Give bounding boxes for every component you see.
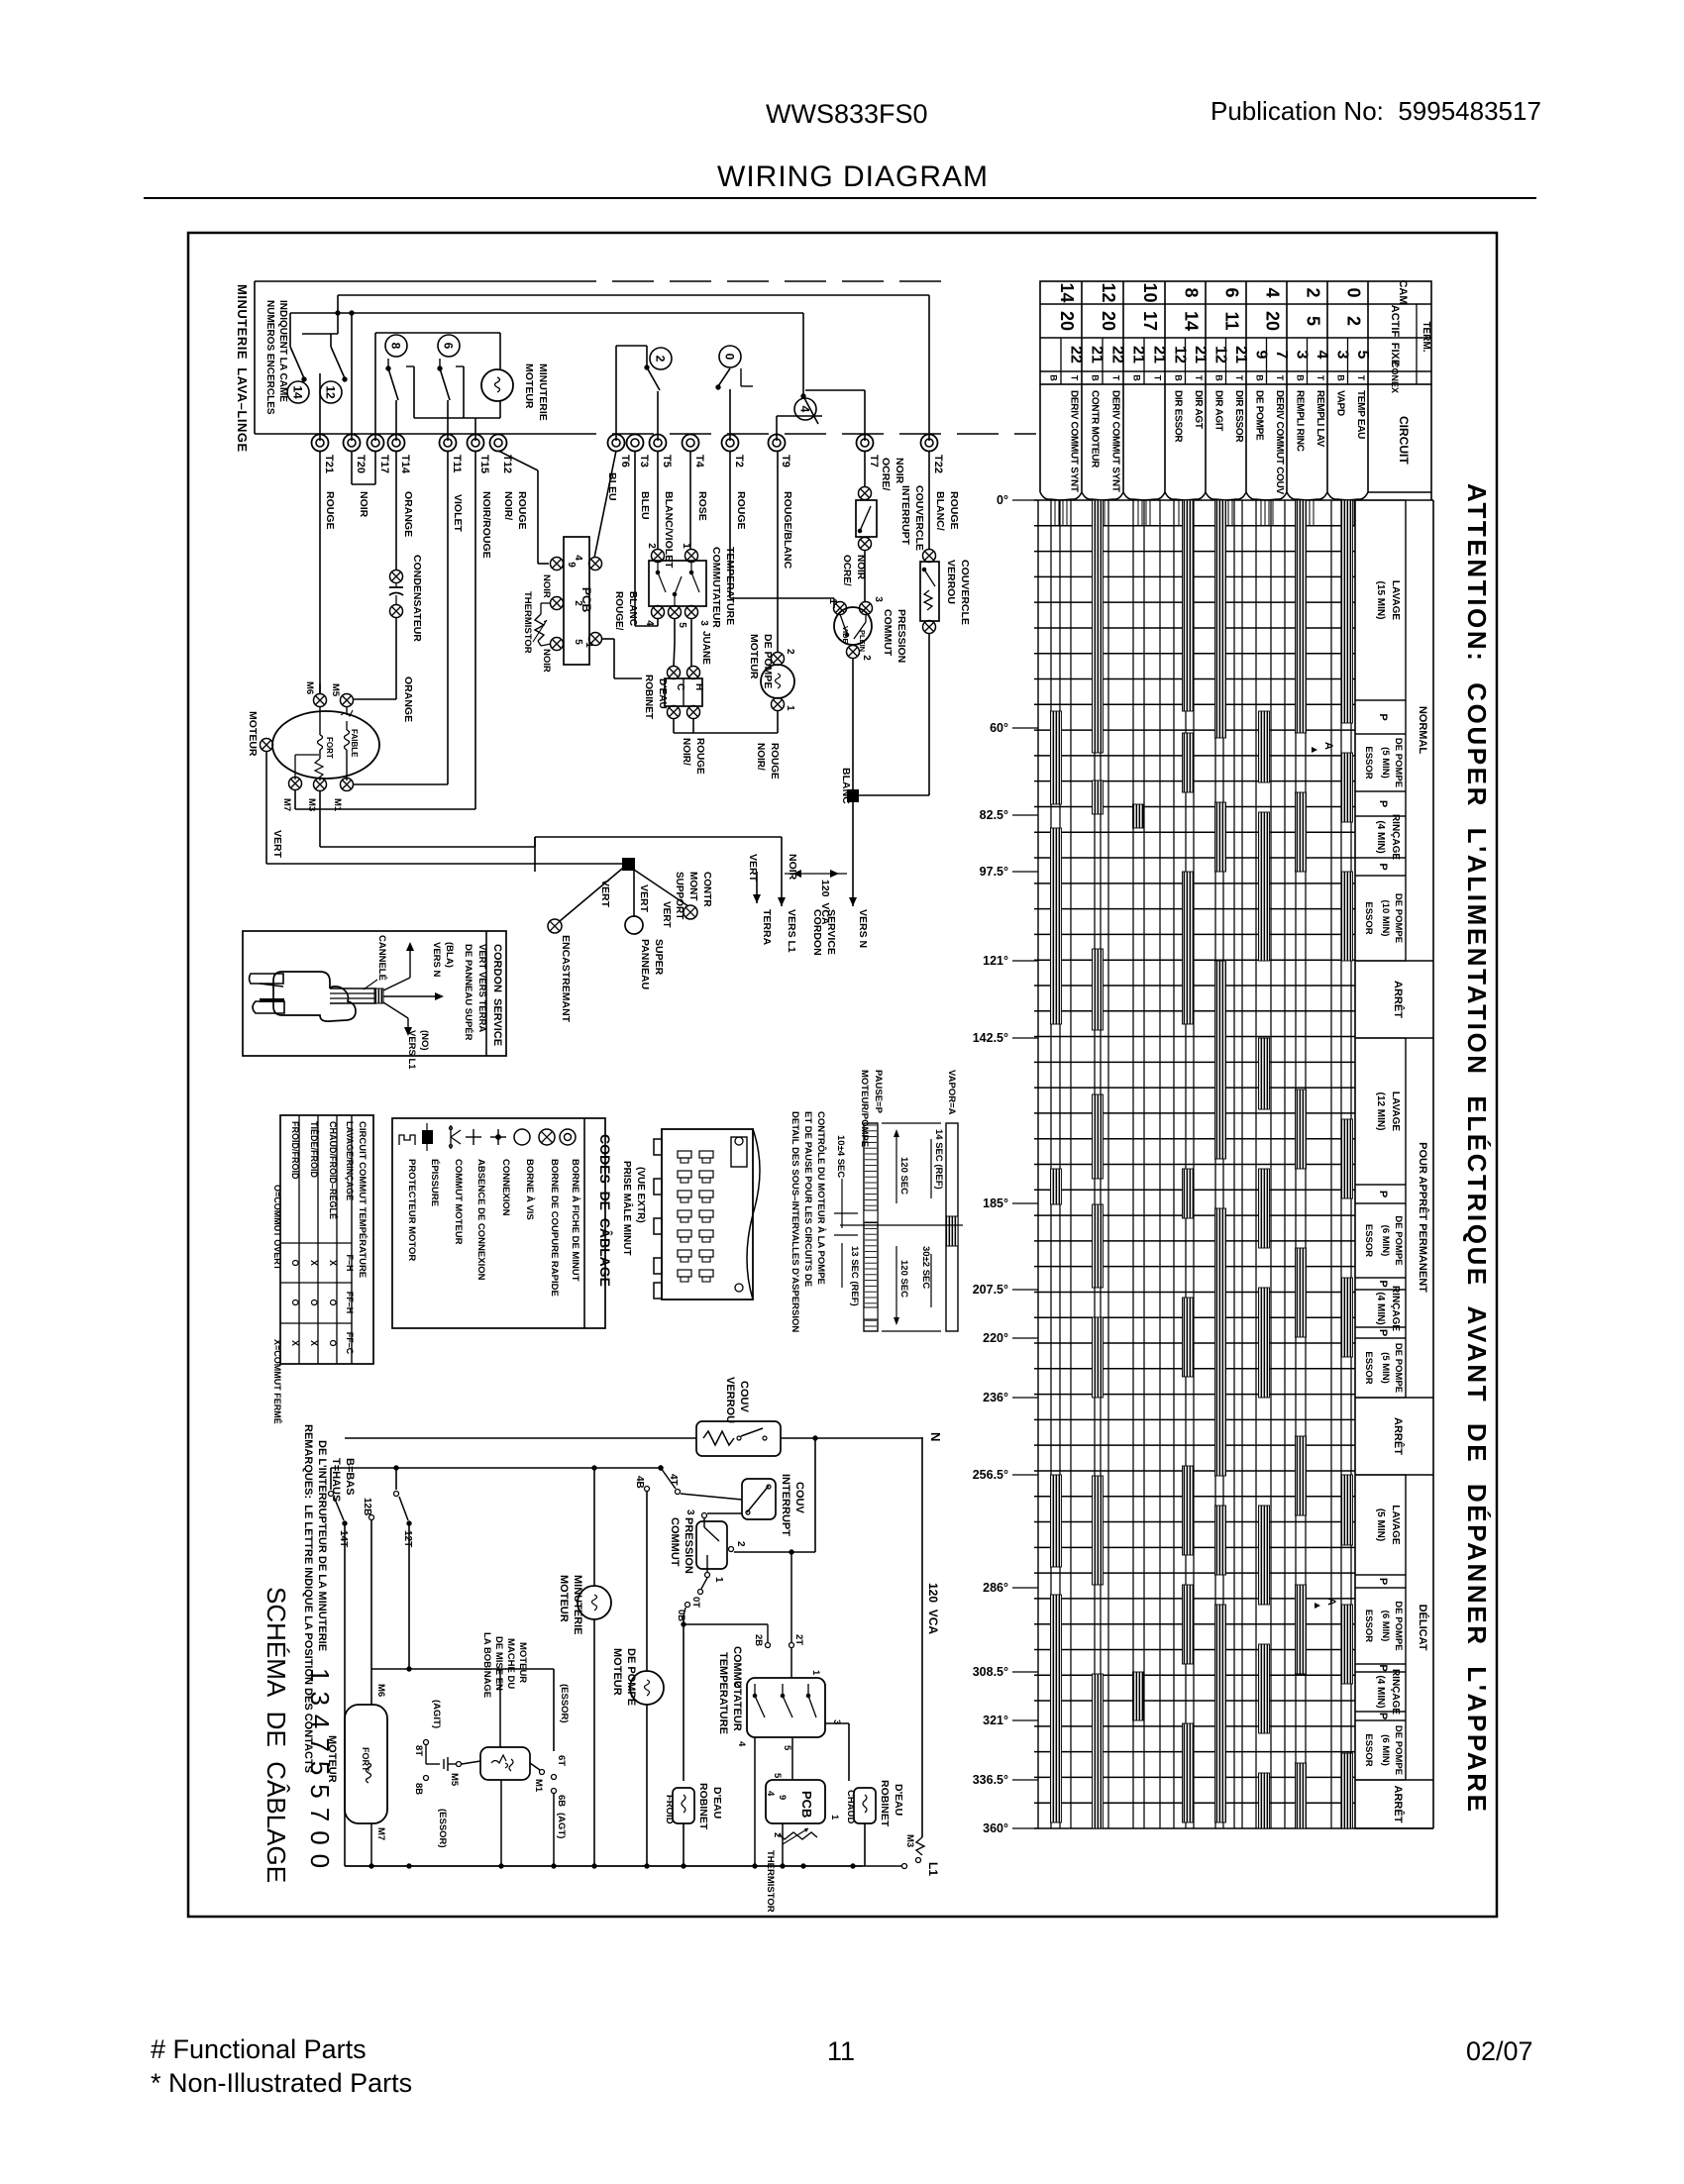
svg-text:MINUTERIE: MINUTERIE [572,1575,583,1635]
svg-text:ACTIF: ACTIF [1389,305,1401,338]
svg-text:(10 MIN): (10 MIN) [1380,900,1391,937]
svg-text:14: 14 [1057,282,1077,302]
svg-text:12B: 12B [362,1498,372,1515]
terminal T9 [769,435,786,452]
svg-text:BORNE À VIS: BORNE À VIS [524,1159,535,1220]
svg-text:CORDON: CORDON [811,909,823,956]
svg-text:2: 2 [654,356,668,363]
svg-text:236°: 236° [983,1391,1008,1404]
cycle phase cells [1355,499,1406,501]
svg-text:LAVAGE/RINÇAGE: LAVAGE/RINÇAGE [345,1121,355,1200]
svg-text:SCHÉMA DE CÂBLAGE: SCHÉMA DE CÂBLAGE [262,1587,291,1883]
svg-text:MOTEUR: MOTEUR [517,1642,528,1683]
temp sw connections [790,1648,792,1678]
junction splice [622,858,635,871]
terminal T7 [857,435,874,452]
svg-text:3: 3 [698,620,709,626]
pump motor [761,665,794,698]
svg-text:B: B [1173,374,1183,381]
svg-text:MOTEUR: MOTEUR [748,634,760,679]
svg-text:336.5°: 336.5° [973,1773,1008,1787]
svg-text:3: 3 [873,596,884,602]
svg-text:21: 21 [1232,346,1249,364]
svg-text:OCRE/: OCRE/ [880,458,892,490]
svg-text:B: B [1254,374,1264,381]
svg-text:ESSOR: ESSOR [1363,1224,1374,1257]
connector drop bundles under scallops [1054,500,1056,526]
svg-text:DERIV COMMUT COUV: DERIV COMMUT COUV [1274,390,1285,495]
svg-text:(6 MIN): (6 MIN) [1380,1734,1391,1766]
pcb pins [551,558,564,571]
svg-text:17: 17 [1140,311,1160,331]
svg-text:DIR ESSOR: DIR ESSOR [1172,390,1183,443]
svg-text:MONT: MONT [687,872,698,900]
legend sym coupure rapide [539,1129,555,1145]
svg-text:T22: T22 [932,455,944,473]
svg-text:20: 20 [1099,311,1118,331]
wire bus y337 [302,333,338,335]
svg-text:T6: T6 [619,455,631,468]
svg-text:ARRÊT: ARRÊT [1392,1786,1405,1823]
svg-text:ABSENCE DE CONNEXION: ABSENCE DE CONNEXION [475,1159,486,1281]
minuterie timer box [254,281,256,434]
svg-text:MOTEUR: MOTEUR [247,711,259,757]
motor (main) [272,711,379,779]
svg-text:T7: T7 [868,455,880,468]
svg-text:P: P [1377,1578,1389,1585]
svg-text:CORDON SERVICE: CORDON SERVICE [491,944,503,1046]
M1 contact [530,1763,540,1770]
svg-text:ROUGE/BLANC: ROUGE/BLANC [782,491,793,570]
svg-text:B: B [1049,374,1059,381]
svg-text:CIRCUIT: CIRCUIT [1397,416,1411,465]
svg-text:NOIR/ROUGE: NOIR/ROUGE [480,491,492,559]
svg-text:5: 5 [573,639,583,645]
svg-text:121°: 121° [983,954,1008,968]
T21 riser [319,373,321,441]
moteur de pompe (lower) [630,1671,664,1705]
svg-text:SERVICE: SERVICE [825,909,837,955]
svg-text:CONTR MOTEUR: CONTR MOTEUR [1090,390,1101,468]
svg-text:NOIR: NOIR [541,649,552,673]
svg-text:2: 2 [646,543,657,549]
svg-text:(15 MIN): (15 MIN) [1375,581,1386,620]
svg-text:8: 8 [389,343,403,350]
power plug body [273,972,356,1021]
svg-text:8T: 8T [413,1745,424,1756]
svg-text:DERIV COMMUT SYNT: DERIV COMMUT SYNT [1110,390,1121,492]
svg-text:308.5°: 308.5° [973,1665,1008,1679]
svg-text:DE L'INTERRUPTEUR DE LA MINUTE: DE L'INTERRUPTEUR DE LA MINUTERIE [316,1440,328,1651]
svg-text:VERROU: VERROU [724,1377,736,1423]
svg-text:360°: 360° [983,1821,1008,1835]
svg-text:0T: 0T [690,1597,701,1608]
svg-text:COUV: COUV [793,1482,805,1513]
svg-text:VERROU: VERROU [945,560,957,604]
svg-text:NOIR: NOIR [541,574,552,598]
svg-text:T14: T14 [399,455,411,474]
svg-text:ROBINET: ROBINET [643,675,654,719]
svg-text:NOIR/: NOIR/ [681,738,691,766]
svg-text:VIOLET: VIOLET [452,494,464,533]
svg-text:DE POMPE: DE POMPE [1393,1725,1404,1775]
svg-text:D'EAU: D'EAU [657,678,668,709]
svg-text:CONTR: CONTR [701,872,712,907]
svg-text:VERT VERS TERRA: VERT VERS TERRA [476,944,487,1032]
degree scale labels [1012,499,1038,501]
dim lines [895,1136,897,1203]
svg-text:NUMEROS ENCERCLES: NUMEROS ENCERCLES [264,300,275,415]
svg-text:B: B [1295,374,1305,381]
svg-text:RINÇAGE: RINÇAGE [1390,1286,1401,1331]
svg-text:ESSOR: ESSOR [1363,746,1374,779]
svg-text:BLEU: BLEU [639,491,651,520]
svg-text:82.5°: 82.5° [980,808,1008,822]
plug prong 1 [250,974,284,984]
svg-text:0°: 0° [997,493,1008,507]
svg-text:9: 9 [566,562,577,568]
svg-text:BLANC/: BLANC/ [934,491,946,531]
svg-text:BLANC: BLANC [627,591,638,626]
svg-text:2: 2 [861,655,872,661]
terminal T11 [440,435,457,452]
svg-text:ENCASTREMANT: ENCASTREMANT [560,935,572,1023]
svg-text:T: T [1111,375,1121,381]
svg-text:JUANE: JUANE [700,631,711,665]
svg-text:ROUGE: ROUGE [948,491,960,530]
svg-text:14T: 14T [338,1530,349,1547]
cam switch 14 [289,313,291,347]
cycle phase band outer borders [1405,500,1407,961]
svg-text:VERT: VERT [638,884,650,913]
terminal T5 [650,435,667,452]
svg-text:3: 3 [1333,351,1350,360]
vers L1 arrow [781,837,783,906]
vert terra arrow [756,872,758,903]
svg-text:NOIR: NOIR [787,854,798,881]
svg-text:ROSE: ROSE [696,491,708,521]
svg-text:(AGIT): (AGIT) [431,1700,442,1728]
cam switch 8 [385,335,407,357]
svg-text:CHAUD: CHAUD [845,1790,856,1823]
svg-text:6: 6 [442,343,456,350]
svg-text:A: A [1325,1598,1337,1606]
svg-text:207.5°: 207.5° [973,1283,1008,1297]
svg-text:VERT: VERT [747,854,759,883]
left verticals [344,1523,346,1866]
svg-text:1: 1 [829,1815,840,1820]
timer chart header table frame [1040,281,1431,384]
svg-text:11: 11 [1222,311,1242,330]
svg-text:O=COMMUT OVERT: O=COMMUT OVERT [272,1185,282,1271]
L1 terminal [916,1837,924,1855]
svg-text:TIÈDE/FROID: TIÈDE/FROID [309,1121,319,1179]
T11 wire down [447,451,449,784]
svg-text:PLEIN: PLEIN [858,630,867,652]
svg-text:T: T [1316,375,1325,381]
svg-text:DIR ESSOR: DIR ESSOR [1233,390,1244,443]
svg-text:X: X [290,1340,300,1346]
left dims [841,1179,843,1228]
svg-text:T17: T17 [378,455,390,473]
svg-text:120 VCA: 120 VCA [926,1583,940,1634]
svg-text:ARRÊT: ARRÊT [1392,981,1405,1018]
svg-text:BORNE À FICHE DE MINUT: BORNE À FICHE DE MINUT [570,1159,580,1282]
svg-text:321°: 321° [983,1714,1008,1727]
svg-text:SUPER: SUPER [653,939,665,976]
T15 riser [474,418,476,441]
svg-text:14: 14 [291,385,305,399]
svg-text:(5 MIN): (5 MIN) [1380,1352,1391,1384]
svg-text:4: 4 [765,1791,776,1797]
wire bus y316 [290,312,803,314]
vert wire from motor [265,751,267,864]
vapor bar [946,1123,958,1331]
svg-text:1: 1 [713,1577,724,1583]
svg-text:5: 5 [1304,316,1323,326]
svg-text:CONDENSATEUR: CONDENSATEUR [411,555,423,642]
N supply wire [345,1437,696,1439]
svg-text:LAVAGE: LAVAGE [1390,580,1401,621]
bottom rail [345,1865,863,1867]
svg-text:4: 4 [1314,351,1330,360]
svg-text:O: O [290,1259,300,1266]
svg-text:ROBINET: ROBINET [879,1780,891,1827]
svg-text:12: 12 [1099,282,1118,302]
svg-text:5: 5 [772,1773,783,1779]
svg-text:TEMP EAU: TEMP EAU [1355,390,1366,439]
chart body right border / band divider [1354,500,1356,1828]
T5 riser down [657,451,659,550]
horizontal time grid lines [1034,499,1355,501]
terminal T22 [921,435,938,452]
svg-text:6: 6 [1222,287,1242,297]
svg-text:P: P [1377,800,1389,807]
svg-text:(ESSOR): (ESSOR) [437,1809,448,1848]
svg-text:T: T [1070,375,1080,381]
svg-text:F–H: F–H [345,1254,355,1271]
svg-text:DETAIL DES SOUS–INTERVALLES D': DETAIL DES SOUS–INTERVALLES D'ASPERSION [789,1111,800,1332]
verrou couv (lower) [696,1421,781,1456]
svg-text:ROUGE: ROUGE [516,491,528,530]
pump interval bar [864,1123,878,1331]
svg-text:BORNE DE COUPURE RAPIDE: BORNE DE COUPURE RAPIDE [549,1159,560,1297]
svg-text:286°: 286° [983,1581,1008,1595]
svg-text:MOTEUR: MOTEUR [523,364,535,409]
svg-text:ROBINET: ROBINET [697,1783,709,1830]
svg-text:2: 2 [1344,316,1364,326]
svg-text:COUVERCLE: COUVERCLE [913,485,925,551]
svg-text:COMMUTATEUR: COMMUTATEUR [710,547,722,628]
pcb (lower) [766,1780,825,1823]
svg-text:DE POMPE: DE POMPE [1393,1601,1404,1650]
robinet bottom wires [673,718,675,733]
svg-text:PRESSION: PRESSION [683,1517,694,1574]
svg-text:C: C [675,683,685,690]
encastremant [560,864,628,921]
svg-text:VERS L1: VERS L1 [786,909,797,953]
cam switch 2 [615,346,617,441]
svg-text:(4 MIN): (4 MIN) [1375,820,1386,853]
svg-text:TERM.: TERM. [1421,321,1431,352]
svg-text:H: H [693,683,704,690]
legend sym commut moteur [450,1125,452,1149]
svg-text:(6 MIN): (6 MIN) [1380,1611,1391,1642]
terminal T15 [468,435,484,452]
svg-text:21: 21 [1089,346,1105,364]
svg-text:6B: 6B [556,1795,567,1807]
svg-text:ESSOR: ESSOR [1363,1610,1374,1642]
svg-text:22: 22 [1068,346,1085,364]
thermistor (lower) [779,1832,817,1839]
terminal T6 [608,435,625,452]
bus y422 [414,417,500,419]
pression pin2 wire to N [734,1551,815,1553]
svg-text:Publication No: 5995483517: Publication No: 5995483517 [1210,96,1541,126]
center line [840,1224,963,1226]
svg-text:(BLA): (BLA) [444,942,455,968]
svg-text:P: P [1377,1329,1389,1336]
legend sym connexion [490,1136,506,1138]
robinet d eau chaud [854,1788,876,1823]
names row sides and scalloped bottoms [1081,384,1083,492]
cam switch 4 [802,313,804,396]
svg-text:2: 2 [732,1682,743,1687]
svg-text:9: 9 [1252,351,1269,360]
svg-text:ROUGE: ROUGE [694,738,705,775]
pressure switch lower wire [852,658,854,795]
switch 12B [369,1515,374,1520]
svg-text:ATTENTION: COUPER L'ALIMENTA: ATTENTION: COUPER L'ALIMENTATION ELÉCTRI… [1462,483,1492,1815]
terminal T12 [490,435,507,452]
svg-text:O: O [328,1339,338,1346]
svg-text:LAVAGE: LAVAGE [1390,1092,1401,1132]
svg-text:FORT: FORT [325,737,334,759]
T2 wire to pressure switch [729,451,731,598]
svg-text:VAPD: VAPD [1334,390,1345,416]
svg-text:21: 21 [1151,346,1168,364]
svg-text:LA BOBINAGE: LA BOBINAGE [481,1632,492,1698]
svg-text:X: X [328,1260,338,1266]
svg-text:ESSOR: ESSOR [1363,1733,1374,1766]
svg-text:T: T [1275,375,1285,381]
T17 riser and top bus [374,333,376,441]
cam closed-interval bars [1051,711,1062,804]
svg-text:CONTRÔLE DU MOTEUR À LA POMPE: CONTRÔLE DU MOTEUR À LA POMPE [815,1111,827,1285]
M5 switch [457,1762,462,1767]
svg-text:M3: M3 [904,1834,915,1847]
chart trace lines (circuit rows) [1050,500,1052,1828]
svg-text:P: P [1377,1664,1389,1671]
svg-text:2: 2 [735,1541,746,1547]
svg-text:2: 2 [1304,287,1323,297]
svg-text:VAPOR=A: VAPOR=A [946,1070,957,1115]
svg-text:REMPLI RINC: REMPLI RINC [1294,390,1305,452]
svg-text:INDIQUENT LA CAME: INDIQUENT LA CAME [277,300,288,402]
svg-text:(4 MIN): (4 MIN) [1375,1292,1386,1324]
svg-text:4: 4 [644,620,655,626]
svg-text:INTERRUPT: INTERRUPT [899,485,911,546]
T7 riser top [864,390,866,441]
svg-text:T: T [1234,375,1244,381]
svg-text:M5: M5 [449,1773,460,1787]
svg-text:WWS833FS0: WWS833FS0 [766,99,928,129]
interrupt couv (lower) [742,1479,776,1519]
svg-text:COUV: COUV [738,1381,750,1412]
svg-text:* Non-Illustrated Parts: * Non-Illustrated Parts [151,2068,412,2098]
svg-text:CAM: CAM [1397,279,1409,304]
T9 riser [776,416,778,441]
svg-text:(6 MIN): (6 MIN) [1380,1225,1391,1257]
svg-text:02/07: 02/07 [1466,2036,1533,2066]
svg-text:20: 20 [1263,311,1283,331]
svg-text:M7: M7 [281,798,292,811]
svg-text:NOIR/: NOIR/ [755,743,766,771]
svg-text:0: 0 [1344,287,1364,297]
terminal T4 [683,435,699,452]
svg-text:T21: T21 [323,455,335,473]
svg-text:D'EAU: D'EAU [711,1787,723,1819]
svg-text:ÉPISSURE: ÉPISSURE [429,1159,440,1206]
svg-text:T9: T9 [780,455,791,468]
svg-text:60°: 60° [990,721,1008,735]
svg-text:120 SEC: 120 SEC [898,1157,909,1195]
svg-text:4B: 4B [634,1476,645,1489]
svg-text:OCRE/: OCRE/ [841,555,852,586]
pcb pin5 wire [601,638,614,640]
commutateur temperature box [649,561,706,606]
svg-text:DE POMPE: DE POMPE [1393,738,1404,787]
svg-text:COMMUT MOTEUR: COMMUT MOTEUR [453,1159,464,1245]
terminal T17 [368,435,384,452]
svg-text:3: 3 [684,1509,695,1515]
pcb board [564,537,589,665]
title rule [144,197,1536,199]
svg-text:2B: 2B [753,1634,764,1646]
prise male minut connector [662,1129,753,1300]
svg-text:B: B [1335,374,1345,381]
svg-text:12: 12 [324,385,338,399]
legend sym absence connexion [466,1136,481,1138]
pression pin1 to 0T 0B [701,1578,707,1589]
svg-text:M5: M5 [330,683,341,697]
svg-text:FROID/FROID: FROID/FROID [290,1121,300,1180]
svg-text:ROUGE: ROUGE [324,491,336,530]
robinet d eau coil box [665,678,702,706]
T14 wire + condensateur [395,451,397,571]
svg-text:4: 4 [798,406,812,413]
svg-text:MOTEUR: MOTEUR [611,1648,623,1696]
svg-text:POUR APPRÊT PERMANENT: POUR APPRÊT PERMANENT [1417,1142,1429,1293]
svg-text:(4 MIN): (4 MIN) [1375,1675,1386,1708]
outer border frame [188,233,1497,1917]
terminal T14 [388,435,405,452]
svg-text:# Functional Parts: # Functional Parts [151,2034,367,2064]
temperature circuit table [280,1115,373,1364]
svg-text:(12 MIN): (12 MIN) [1375,1092,1386,1131]
svg-text:COMMUTATEUR: COMMUTATEUR [731,1646,743,1731]
svg-text:NOIR/: NOIR/ [502,491,514,520]
svg-text:FROID: FROID [664,1795,675,1824]
svg-text:PANNEAU: PANNEAU [639,939,651,989]
svg-text:VERT: VERT [661,901,672,928]
svg-text:11: 11 [827,2036,855,2066]
svg-text:DE POMPE: DE POMPE [1253,390,1264,441]
svg-text:B: B [1132,374,1142,381]
motor wires [319,683,321,692]
svg-text:O: O [309,1299,319,1305]
svg-text:(5 MIN): (5 MIN) [1375,1508,1386,1541]
